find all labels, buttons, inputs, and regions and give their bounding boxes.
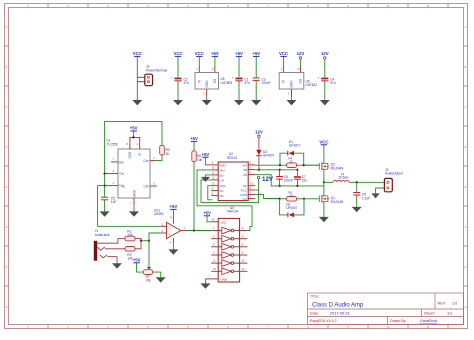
svg-text:H: H [6,305,8,309]
ground [251,100,261,105]
svg-text:Dis: Dis [119,160,124,164]
diode D1 UF4007 [280,153,288,165]
diode D2 UF4007 [280,199,288,215]
svg-text:+5V: +5V [252,51,260,56]
transistor Q2 IRLZ44N [318,163,320,170]
wire [133,206,135,212]
capacitor C5 [101,196,108,198]
wire [255,81,257,100]
svg-text:A: A [6,25,8,29]
svg-text:UF4007: UF4007 [263,154,275,158]
wire [255,189,258,191]
node Thr junction [103,172,105,174]
wire (to Q1 gate) [304,198,319,200]
wire [297,198,304,200]
ground (C5) [100,211,110,216]
capacitor C2 [174,78,181,80]
svg-text:B: B [465,65,467,69]
svg-text:1.5uF: 1.5uF [362,196,370,200]
node [296,169,298,171]
inverter U3 gate 2 [211,238,222,240]
svg-text:IRLZ44N: IRLZ44N [331,166,344,170]
ground [287,100,297,105]
pin HO 7 (right) [248,164,255,166]
svg-text:VO: VO [299,78,303,83]
wire [297,164,320,166]
capacitor C8 [356,182,358,190]
svg-text:HO: HO [243,163,248,167]
svg-text:VDD: VDD [128,151,132,158]
svg-text:A: A [465,25,467,29]
node R1/R9 join [140,240,142,242]
svg-text:C: C [465,105,467,109]
svg-text:VI: VI [197,80,201,83]
svg-text:10k: 10k [146,278,152,282]
inverter U3 gate 4 [211,254,222,256]
wire [153,272,161,277]
svg-text:EasyEDA V4.5.2: EasyEDA V4.5.2 [310,319,337,323]
pin Dis 7 [111,161,118,163]
node VDD/R junction [132,136,134,138]
svg-text:D: D [465,145,467,149]
svg-text:B: B [6,65,8,69]
svg-text:PowerTerminal: PowerTerminal [146,68,167,72]
node [278,185,280,187]
wire [349,181,384,183]
pin ring contact [98,247,105,250]
svg-text:+5V: +5V [202,152,210,157]
pin 4 V- [172,238,174,244]
pin VDD 9 (left) [211,164,218,166]
svg-text:UF4007: UF4007 [289,143,301,147]
svg-text:+5V: +5V [211,51,219,56]
pin Ctrl 5 [150,185,157,187]
svg-text:+5V: +5V [203,210,211,215]
node [278,198,280,200]
svg-text:VCC: VCC [220,220,227,224]
svg-text:VCC: VCC [241,188,248,192]
svg-text:G: G [5,265,7,269]
svg-text:LM393: LM393 [154,212,164,216]
wire (to volume pot) [148,241,150,267]
svg-text:G: G [464,265,466,269]
svg-text:LM7812: LM7812 [306,83,318,87]
wire (triangle wave to comparator) [98,186,161,227]
wire [299,59,301,65]
svg-text:22u: 22u [302,178,308,182]
pin 2 inverting input [160,225,166,227]
capacitor C6 [279,170,281,176]
ground [320,100,330,105]
pin Thr 6 [105,173,118,175]
svg-text:1/1: 1/1 [447,312,452,316]
pin 14 VCC [211,221,218,223]
svg-text:+: + [318,76,320,80]
pin sleeve contact [100,255,108,258]
svg-text:GND: GND [205,80,209,88]
svg-text:10k: 10k [197,158,203,162]
svg-text:GND: GND [220,277,228,281]
ground (C8) [352,207,362,212]
svg-text:Drawn By:: Drawn By: [390,319,407,323]
svg-text:IRLZ44N: IRLZ44N [331,200,344,204]
title block [308,293,464,325]
pin HIN 10 (left) [211,169,218,171]
svg-text:+: + [232,76,234,80]
svg-text:+5V: +5V [235,51,243,56]
svg-text:2017-05-23: 2017-05-23 [330,312,349,316]
svg-text:+: + [171,76,173,80]
svg-text:12V: 12V [297,51,305,56]
svg-text:VDD: VDD [219,163,226,167]
svg-text:VCC: VCC [195,51,204,56]
svg-text:HIN: HIN [219,168,224,172]
pin VSS 13 (left) [211,185,218,187]
capacitor C4 [321,78,328,80]
svg-text:LM7805: LM7805 [221,81,233,85]
svg-text:C: C [6,105,8,109]
svg-text:VCC: VCC [279,51,288,56]
wire (source) [323,202,325,217]
node [278,169,280,171]
node D3/VB junction [258,169,260,171]
svg-text:10k: 10k [127,233,133,237]
svg-text:TITLE:: TITLE: [310,295,320,299]
svg-text:AudioJack: AudioJack [95,233,110,237]
wire [323,145,325,163]
transistor Q1 IRLZ44N [318,196,320,203]
wire [177,81,179,100]
svg-text:Date:: Date: [310,312,319,316]
node Trig junction [103,184,105,186]
wire [238,57,240,78]
wire [104,186,106,197]
wire [207,216,211,222]
inductor L1 16.5uH [324,181,333,183]
wire (sleeve to ground) [107,257,117,264]
svg-text:10: 10 [289,194,293,198]
svg-text:12V: 12V [262,176,274,183]
svg-text:LIN: LIN [219,178,224,182]
wire [172,244,174,250]
wire (555 feedback top) [105,121,162,185]
node L1/C8 junction [356,181,358,183]
svg-text:47u: 47u [330,81,336,85]
wire (J3 ground) [376,188,385,193]
pin Trig 2 [105,185,118,187]
svg-text:REV:: REV: [438,302,447,306]
net port 12V (U2 VCC) [257,176,260,179]
svg-text:1uF: 1uF [111,200,117,204]
node [303,198,305,200]
svg-text:VCC: VCC [133,51,142,56]
resistor R9 [125,247,135,252]
wire (VB row) [255,169,297,171]
svg-text:TLC555: TLC555 [107,142,119,146]
wire [198,57,200,66]
wire (source to switch node) [323,169,325,182]
node [303,164,305,166]
ground [202,100,212,105]
svg-text:220nF: 220nF [262,81,271,85]
svg-text:1.0: 1.0 [452,302,457,306]
svg-text:VO: VO [213,78,217,83]
ground (SD) [201,177,210,182]
svg-text:Ctrl: Ctrl [144,184,149,188]
svg-text:VI: VI [282,80,286,83]
svg-text:LO: LO [243,197,248,201]
ground (Q1 source) [319,217,329,222]
wire [324,59,326,77]
svg-text:Trig: Trig [119,184,125,188]
wire [137,263,144,272]
inverter U3 gate 1 [211,230,222,232]
pin NC 3,5 (right) [248,185,255,187]
resistor R4 [287,163,297,168]
pin VB 6 (right) [248,169,255,171]
ground (jack) [112,263,122,268]
svg-text:H: H [465,305,467,309]
svg-text:VS: VS [243,173,247,177]
svg-text:12V: 12V [255,129,263,134]
node switch node [323,181,325,183]
diode D3 UF4007 [258,138,260,150]
wire (LO to gate resistor) [255,195,279,199]
svg-text:VCC: VCC [173,51,182,56]
capacitor C1 [235,78,242,80]
svg-text:E: E [465,185,467,189]
svg-text:+5V: +5V [133,257,141,262]
svg-text:+5V: +5V [170,204,178,209]
regulator U5 LM7805 [198,66,200,73]
wire (LIN loop) [201,179,259,202]
wire [205,279,207,284]
svg-text:D: D [6,145,8,149]
inverter U3 gate 6 [211,270,222,272]
capacitor C3 [253,77,260,79]
svg-text:UF4007: UF4007 [286,206,298,210]
pin COM 2 (right) [248,194,255,196]
svg-text:2k: 2k [166,152,170,156]
pin tip [97,239,125,244]
svg-text:+5V: +5V [130,126,138,131]
node audio node [148,240,150,242]
wire (VS row) [255,175,324,186]
ground (pot) [156,277,166,282]
ground (J3) [371,193,379,198]
wire [214,57,216,66]
ground (555) [129,211,139,216]
wire [177,57,179,78]
capacitor C7 [296,170,298,176]
svg-text:E: E [6,185,8,189]
svg-text:12V: 12V [321,51,329,56]
inverter U3 gate 5 [211,262,222,264]
resistor R6 [192,151,196,162]
wire [238,81,240,100]
wire [324,81,326,100]
svg-text:GND: GND [290,80,294,88]
wire (gate) [304,164,320,166]
wire [104,200,106,211]
wire [156,155,162,161]
wire [291,96,293,101]
wire (comparator output) [187,230,211,232]
ground (op-amp) [168,249,178,254]
ground [173,100,183,105]
pin VS 5 (right) [248,174,255,176]
pin SD 11 (left) [211,174,218,176]
node [296,185,298,187]
pin GND 1 [133,198,135,206]
pin NC 4 (left) [211,190,218,192]
pin 1 output [181,230,187,232]
wire (SD to ground) [206,175,212,177]
svg-text:AudioOutput: AudioOutput [385,172,403,176]
connector J2 PowerTerminal [137,76,145,78]
pin 8 V+ [172,216,174,224]
svg-text:GreatScott: GreatScott [420,319,437,323]
ground [132,100,142,105]
ground [234,100,244,105]
svg-text:VSS: VSS [219,184,225,188]
resistor R3 [160,145,165,155]
wire (to + input) [149,233,160,241]
node output junction [193,229,195,231]
node [279,164,281,166]
pin NC 8 (left) [211,195,218,197]
wire [206,96,208,101]
wire [136,57,138,100]
wire [172,210,174,217]
wire (VSS) [208,186,213,200]
svg-text:IR2113: IR2113 [227,156,237,160]
ground (74HC04) [201,283,211,288]
wire [255,57,257,78]
wire [204,157,206,165]
wire [283,57,285,66]
inverter U3 gate 3 [211,246,222,248]
svg-text:74HC04: 74HC04 [227,210,239,214]
svg-text:220nF: 220nF [284,178,293,182]
wire (drain) [323,182,325,196]
regulator U6 LM7812 [283,66,285,73]
svg-text:47u: 47u [184,81,190,85]
pin VCC 3 (right) [248,189,255,191]
wire [280,198,287,200]
svg-text:3,5: 3,5 [250,182,254,186]
svg-text:Sheet:: Sheet: [424,312,435,316]
svg-text:10: 10 [289,160,293,164]
wire (HO row) [255,164,286,166]
wire [133,131,135,137]
svg-text:GND: GND [132,189,136,197]
svg-text:Class D Audio Amp: Class D Audio Amp [312,303,364,309]
svg-text:+5V: +5V [190,136,198,141]
wire (HIN loop from inverter) [197,170,252,231]
resistor R1 [125,236,135,241]
wire (summing node) [135,239,141,249]
potentiometer R7 [147,267,151,270]
pin 3 non-inverting input [160,232,166,234]
svg-text:VB: VB [243,168,247,172]
svg-text:16.5uH: 16.5uH [338,176,349,180]
resistor R5 [287,197,297,202]
pin LO 1 (right) [248,198,255,200]
svg-text:VCC: VCC [319,139,328,144]
pin Out 3 [150,160,156,162]
pin LIN 12 (left) [211,179,218,181]
svg-text:Out: Out [143,159,148,163]
wire [193,142,195,151]
pin 7 GND [206,278,219,280]
wire (pull-up to output) [193,162,195,231]
svg-text:47u: 47u [245,81,251,85]
